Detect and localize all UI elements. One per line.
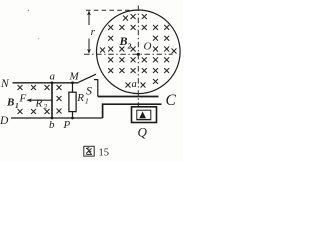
svg-text:O: O	[144, 41, 152, 53]
svg-text:a: a	[132, 79, 137, 90]
node O (center dot)	[137, 53, 140, 56]
svg-text:R: R	[76, 92, 84, 104]
capacitor C top plate (wire from switch)	[98, 96, 159, 98]
construction line: top tangent (dashed)	[86, 9, 140, 11]
svg-text:R: R	[35, 97, 43, 109]
svg-text:F: F	[19, 93, 27, 105]
svg-text:1: 1	[15, 101, 19, 110]
caption: character 图	[84, 146, 94, 156]
junction dot a	[51, 81, 54, 84]
galvanometer Q scale	[137, 118, 150, 120]
resistor R1	[72, 83, 74, 92]
field region B2 (circle boundary)	[97, 10, 181, 94]
capacitor C bottom plate (wire from rail D)	[103, 104, 162, 118]
svg-text:P: P	[63, 119, 71, 131]
svg-text:2: 2	[44, 102, 48, 111]
galvanometer Q inner frame	[137, 110, 151, 120]
svg-text:M: M	[69, 71, 80, 83]
switch S contact	[94, 80, 98, 97]
svg-text:S: S	[86, 84, 92, 98]
rod ab (sliding conductor)	[51, 83, 53, 118]
force arrow F	[30, 99, 52, 101]
svg-text:b: b	[49, 119, 55, 131]
stray scan speck	[38, 38, 40, 40]
junction dot P	[71, 117, 74, 120]
svg-text:C: C	[166, 92, 177, 109]
svg-text:r: r	[91, 26, 96, 38]
rail N (top wire)	[13, 82, 79, 84]
dimension arrow r	[88, 12, 90, 52]
svg-text:a: a	[50, 71, 56, 83]
galvanometer Q (outer box)	[132, 107, 157, 123]
switch S blade	[79, 74, 97, 82]
field B1 x-marks	[18, 85, 61, 113]
rail D (bottom wire)	[11, 117, 103, 119]
field B2 x-marks	[100, 14, 176, 87]
junction dot M	[71, 81, 74, 84]
svg-text:D: D	[0, 115, 9, 127]
svg-text:15: 15	[99, 148, 110, 159]
svg-text:2: 2	[127, 42, 132, 51]
construction line: vertical centerline (dash)	[137, 6, 139, 108]
svg-text:B: B	[6, 97, 14, 109]
svg-text:1: 1	[85, 96, 89, 105]
svg-text:Q: Q	[138, 125, 148, 140]
galvanometer Q needle	[139, 111, 146, 118]
svg-text:B: B	[119, 34, 128, 48]
construction line: horizontal centerline (dash)	[84, 53, 173, 55]
junction dot b	[51, 117, 54, 120]
svg-text:N: N	[0, 78, 10, 90]
